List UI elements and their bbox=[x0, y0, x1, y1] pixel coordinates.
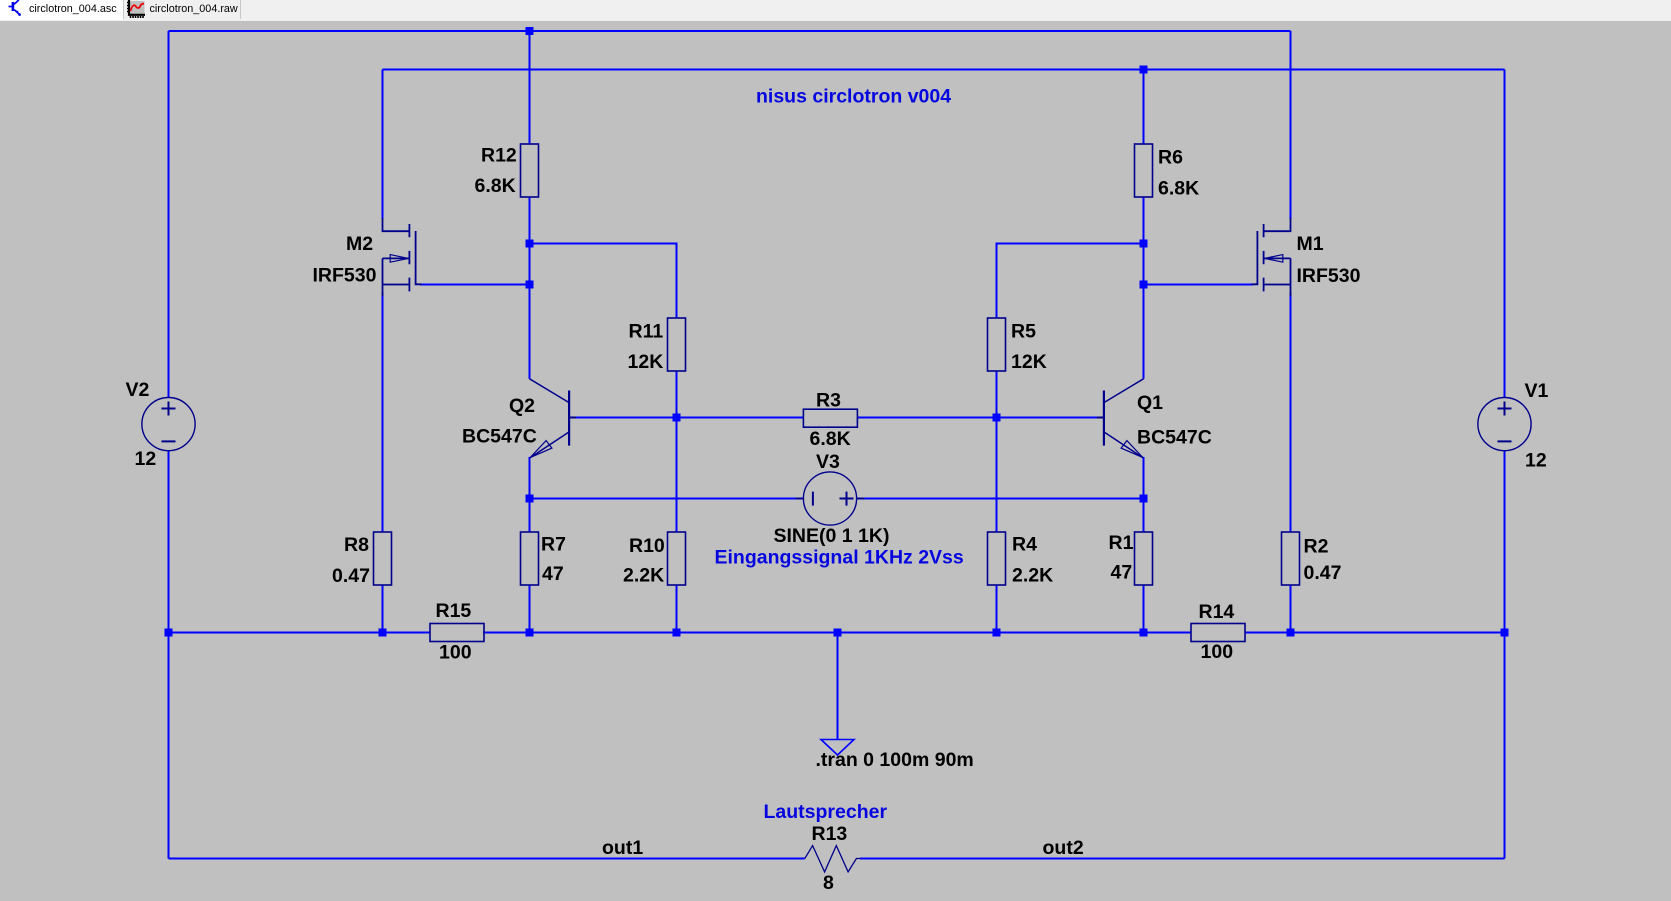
svg-text:R1: R1 bbox=[1109, 532, 1134, 554]
wire left rail lower (bottom rail to out1) bbox=[168, 633, 170, 859]
resistor R1 bbox=[1109, 532, 1153, 585]
svg-text:6.8K: 6.8K bbox=[475, 175, 516, 197]
node bottom rail at ground (junction) bbox=[834, 629, 842, 637]
svg-text:Lautsprecher: Lautsprecher bbox=[764, 801, 888, 823]
svg-text:IRF530: IRF530 bbox=[313, 265, 377, 287]
wire out2 run (R13 to right corner) bbox=[860, 858, 1505, 860]
wire R12 node to R11 top bbox=[530, 244, 677, 319]
svg-text:V1: V1 bbox=[1525, 380, 1549, 402]
svg-text:Eingangssignal 1KHz 2Vss: Eingangssignal 1KHz 2Vss bbox=[715, 547, 964, 569]
resistor R8 bbox=[332, 532, 392, 587]
wire ground stub bbox=[837, 633, 839, 740]
svg-text:R14: R14 bbox=[1199, 601, 1235, 623]
voltage source V3 (sine input) bbox=[774, 451, 890, 547]
node Q1 base / R5 / R4 (junction) bbox=[993, 414, 1001, 422]
svg-text:2.2K: 2.2K bbox=[1012, 565, 1053, 587]
transistor M1 (NMOS IRF530) bbox=[1251, 218, 1290, 296]
node bottom rail at R1 (junction) bbox=[1140, 629, 1148, 637]
node bottom rail at R8 (junction) bbox=[379, 629, 387, 637]
resistor R10 bbox=[623, 532, 686, 587]
wire R12 top lead bbox=[529, 31, 531, 144]
svg-text:100: 100 bbox=[1201, 641, 1234, 663]
svg-text:R2: R2 bbox=[1304, 536, 1329, 558]
node Q1 emitter / R1 / V3 right (junction) bbox=[1140, 495, 1148, 503]
wire R8 bottom lead bbox=[382, 585, 384, 633]
svg-text:out2: out2 bbox=[1043, 837, 1084, 859]
transistor M2 (NMOS IRF530) bbox=[383, 218, 422, 296]
resistor R4 bbox=[988, 532, 1054, 587]
svg-text:BC547C: BC547C bbox=[1137, 427, 1212, 449]
node R12 bottom / R11 tap (junction) bbox=[526, 240, 534, 248]
svg-text:12K: 12K bbox=[628, 351, 664, 373]
wire right rail lower (bottom rail to out2) bbox=[1504, 633, 1506, 859]
svg-text:47: 47 bbox=[1111, 562, 1133, 584]
svg-text:R3: R3 bbox=[816, 390, 841, 412]
wire R5 bottom to base node to R4 bbox=[996, 371, 998, 532]
wire R7 top lead bbox=[529, 499, 531, 533]
svg-text:12: 12 bbox=[135, 448, 157, 470]
wire M2 drain riser bbox=[382, 70, 384, 220]
wire R6 top lead bbox=[1143, 70, 1145, 145]
resistor R13 (Lautsprecher, zig-zag) bbox=[805, 823, 860, 894]
wire V1 upper lead bbox=[1504, 70, 1506, 398]
wire M2 gate connection bbox=[420, 284, 530, 286]
tab icon: waveform (.raw) bbox=[127, 0, 151, 20]
node bottom rail at R2 (junction) bbox=[1287, 629, 1295, 637]
svg-text:6.8K: 6.8K bbox=[810, 428, 851, 450]
voltage source V1 bbox=[1478, 380, 1549, 472]
node bottom rail at R4 (junction) bbox=[993, 629, 1001, 637]
node bottom rail at V1 (junction) bbox=[1501, 629, 1509, 637]
node M1 gate tap (junction) bbox=[1140, 281, 1148, 289]
svg-text:R10: R10 bbox=[629, 535, 665, 557]
wire R2 bottom lead bbox=[1290, 585, 1292, 633]
node R6 top on second rail (junction) bbox=[1140, 66, 1148, 74]
node M2 gate tap (junction) bbox=[526, 281, 534, 289]
wire R12 bottom / M2 gate node / Q2 collector bbox=[529, 197, 531, 379]
ground bbox=[821, 740, 854, 756]
transistor Q1 (NPN BC547C) bbox=[1097, 379, 1144, 458]
tab icon: schematic (.asc) bbox=[0, 0, 24, 20]
wire R11 bottom to base node to R10 bbox=[676, 371, 678, 532]
wire M2 source down to R8 bbox=[382, 292, 384, 532]
svg-text:6.8K: 6.8K bbox=[1158, 178, 1199, 200]
svg-text:R11: R11 bbox=[629, 321, 664, 343]
svg-text:8: 8 bbox=[823, 872, 834, 894]
wire R4 bottom lead bbox=[996, 585, 998, 633]
svg-text:V3: V3 bbox=[816, 451, 840, 473]
svg-text:out1: out1 bbox=[602, 837, 643, 859]
svg-text:2.2K: 2.2K bbox=[623, 565, 664, 587]
wire out1 run (left corner to R13) bbox=[169, 858, 805, 860]
resistor R12 bbox=[475, 144, 539, 197]
svg-text:R6: R6 bbox=[1158, 147, 1183, 169]
svg-text:SINE(0 1 1K): SINE(0 1 1K) bbox=[774, 525, 890, 547]
resistor R15 bbox=[430, 600, 484, 664]
svg-text:100: 100 bbox=[439, 642, 472, 664]
wire M1 source down to R2 bbox=[1290, 292, 1292, 532]
svg-text:nisus circlotron v004: nisus circlotron v004 bbox=[756, 86, 951, 108]
wire R3 right to Q1 base bbox=[857, 417, 1098, 419]
resistor R7 bbox=[521, 532, 566, 585]
wire R1 bottom lead bbox=[1143, 585, 1145, 633]
node bottom rail at V2 (junction) bbox=[165, 629, 173, 637]
voltage source V2 bbox=[126, 379, 196, 470]
wire second rail (M2 drain / R6 / V1+) bbox=[383, 69, 1505, 71]
node Q2 base / R11 / R10 (junction) bbox=[673, 414, 681, 422]
svg-text:R4: R4 bbox=[1012, 534, 1037, 556]
transistor Q2 (NPN BC547C) bbox=[530, 379, 577, 458]
wire top rail (V2+ / R12 / M1 drain) bbox=[169, 30, 1291, 32]
node bottom rail at R10 (junction) bbox=[673, 629, 681, 637]
node R12 top on top rail (junction) bbox=[526, 27, 534, 35]
resistor R2 bbox=[1282, 532, 1342, 585]
wire bottom rail left of R15 bbox=[169, 632, 431, 634]
wire bottom rail right of R14 bbox=[1245, 632, 1505, 634]
node R6 bottom / R5 tap (junction) bbox=[1140, 240, 1148, 248]
svg-text:M1: M1 bbox=[1297, 233, 1324, 255]
svg-text:V2: V2 bbox=[126, 379, 150, 401]
wire R6 bottom / M1 gate node / Q1 collector bbox=[1143, 197, 1145, 379]
wire R7 bottom lead bbox=[529, 585, 531, 633]
svg-text:47: 47 bbox=[542, 563, 564, 585]
resistor R11 bbox=[628, 318, 686, 373]
svg-text:IRF530: IRF530 bbox=[1297, 265, 1361, 287]
node Q2 emitter / R7 / V3 left (junction) bbox=[526, 495, 534, 503]
svg-text:R15: R15 bbox=[436, 600, 472, 622]
svg-text:.tran 0 100m 90m: .tran 0 100m 90m bbox=[816, 749, 974, 771]
svg-text:R7: R7 bbox=[541, 534, 566, 556]
resistor R6 bbox=[1135, 144, 1200, 200]
wire M1 drain riser bbox=[1290, 31, 1292, 219]
wire Q2 base to R3 left bbox=[575, 417, 803, 419]
wire Q1 emitter down to emitter node bbox=[1143, 457, 1145, 499]
svg-text:0.47: 0.47 bbox=[332, 565, 370, 587]
resistor R5 bbox=[988, 318, 1047, 373]
wire R6 node to R5 top bbox=[997, 244, 1144, 319]
svg-text:Q2: Q2 bbox=[509, 395, 535, 417]
svg-text:Q1: Q1 bbox=[1137, 392, 1163, 414]
svg-text:R12: R12 bbox=[481, 145, 517, 167]
svg-text:R8: R8 bbox=[344, 534, 369, 556]
svg-text:R13: R13 bbox=[812, 823, 848, 845]
wire V1- down to bottom rail bbox=[1504, 451, 1506, 633]
resistor R14 bbox=[1191, 601, 1245, 663]
wire R1 top lead bbox=[1143, 499, 1145, 533]
resistor R3 bbox=[803, 390, 857, 451]
wire emitter node to V3 left bbox=[530, 498, 804, 500]
svg-text:M2: M2 bbox=[346, 233, 373, 255]
svg-text:0.47: 0.47 bbox=[1304, 562, 1342, 584]
wire left rail upper (top rail to V2+) bbox=[168, 31, 170, 398]
wire R10 bottom lead bbox=[676, 585, 678, 633]
wire V3 right to right emitter node bbox=[856, 498, 1143, 500]
wire Q2 emitter down to emitter node bbox=[529, 457, 531, 499]
svg-text:R5: R5 bbox=[1011, 321, 1036, 343]
wire M1 gate connection bbox=[1144, 284, 1254, 286]
svg-text:12K: 12K bbox=[1011, 351, 1047, 373]
svg-text:BC547C: BC547C bbox=[462, 426, 537, 448]
svg-text:12: 12 bbox=[1525, 450, 1547, 472]
node bottom rail at R7 (junction) bbox=[526, 629, 534, 637]
wire V2- down to bottom rail bbox=[168, 451, 170, 633]
wire bottom rail R15 to R14 bbox=[483, 632, 1191, 634]
